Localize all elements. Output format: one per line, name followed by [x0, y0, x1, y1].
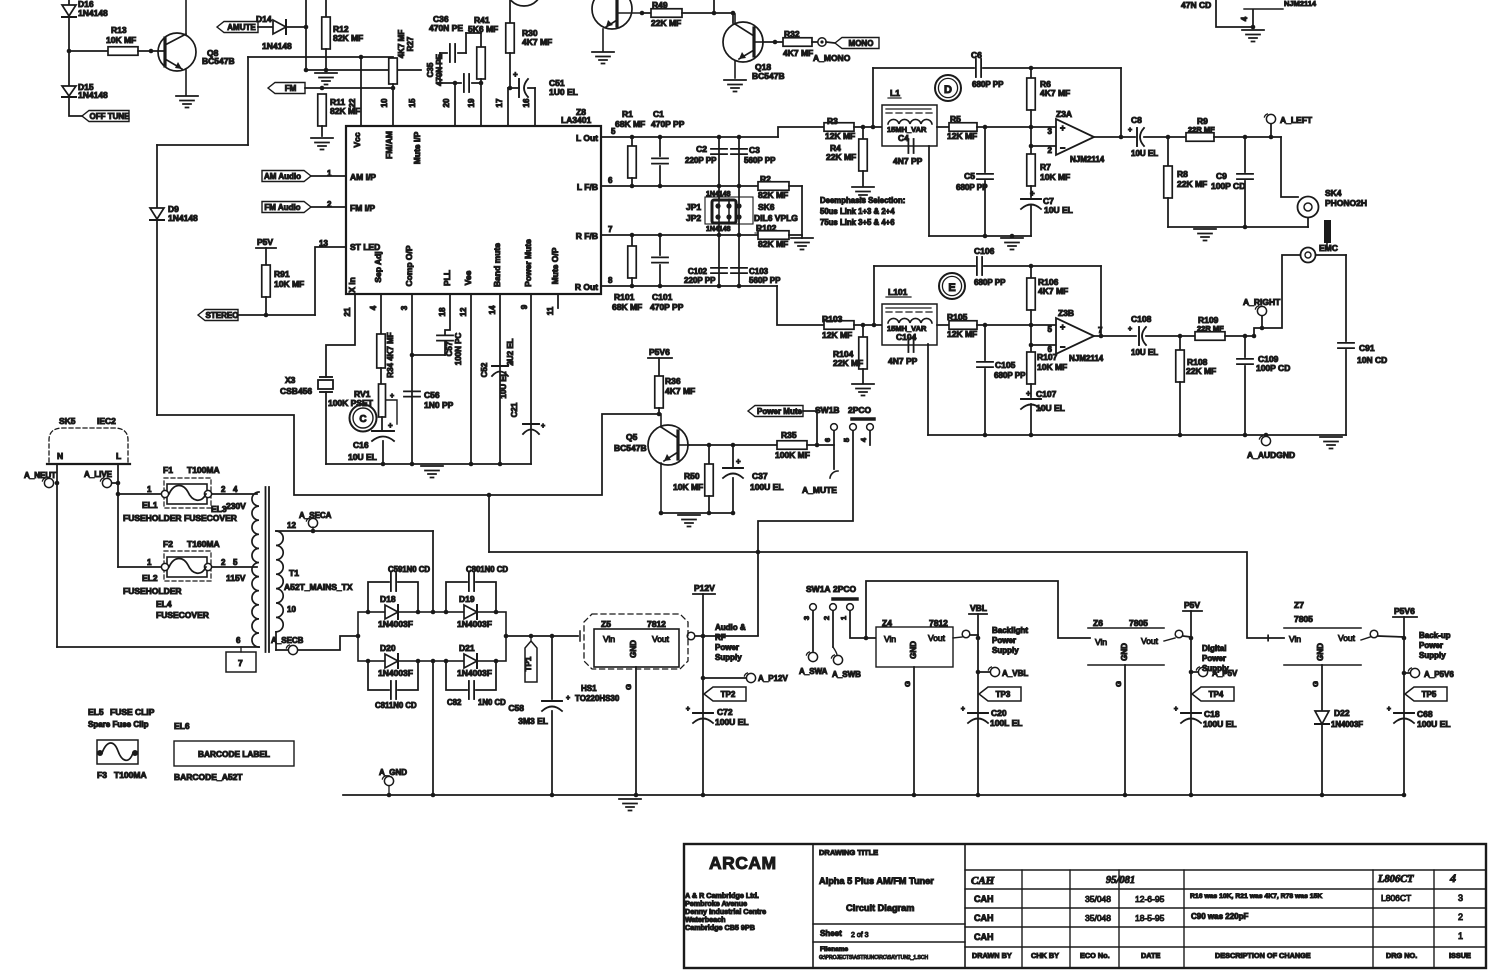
wire D15 to OFF TUNE: [69, 97, 82, 116]
svg-text:C5: C5: [964, 171, 975, 181]
capacitor C37: [723, 445, 784, 513]
wire L Out pin5: [601, 135, 778, 140]
label C35: [426, 53, 444, 86]
svg-text:C8: C8: [1131, 115, 1142, 125]
wire pin16: [534, 88, 536, 126]
diode D21: [457, 643, 492, 678]
svg-text:R49: R49: [652, 0, 668, 10]
svg-text:L101: L101: [888, 287, 908, 297]
svg-text:A_GND: A_GND: [379, 768, 407, 777]
ground below R12: [315, 73, 337, 85]
regulator Z6 7805: [1088, 618, 1164, 665]
svg-text:SK6: SK6: [758, 202, 775, 212]
svg-text:EL5: EL5: [88, 707, 104, 717]
svg-text:A_AUDGND: A_AUDGND: [1247, 450, 1295, 460]
svg-text:470P PP: 470P PP: [651, 119, 685, 129]
svg-text:BARCODE_A52T: BARCODE_A52T: [174, 772, 243, 782]
svg-text:4: 4: [369, 305, 378, 310]
svg-text:2U2 EL: 2U2 EL: [506, 338, 515, 365]
svg-text:3: 3: [1048, 127, 1053, 136]
wire Q5 emitter rail: [659, 511, 736, 516]
svg-text:JP1: JP1: [686, 202, 701, 212]
svg-text:+: +: [1128, 326, 1132, 333]
svg-text:22K MF: 22K MF: [1186, 366, 1216, 376]
wire P12V column: [702, 636, 704, 795]
svg-text:R36: R36: [665, 376, 681, 386]
svg-text:Vcc: Vcc: [352, 132, 362, 147]
svg-text:FUSECOVER: FUSECOVER: [184, 513, 237, 523]
wire pin10: [392, 88, 394, 126]
wire Z7 GND lower: [1321, 724, 1323, 795]
svg-text:Vout: Vout: [652, 634, 670, 644]
svg-text:Supply: Supply: [1419, 651, 1446, 660]
svg-text:2PCO: 2PCO: [848, 405, 872, 415]
wire AMUTE column: [304, 0, 309, 72]
wire to SK4: [1281, 137, 1298, 197]
wire bridge output: [506, 634, 578, 639]
svg-text:2: 2: [221, 558, 226, 567]
svg-text:TO220HS30: TO220HS30: [575, 694, 620, 703]
wire opamp minus input D: [1031, 145, 1056, 147]
wire pin3 column: [411, 294, 413, 464]
resistor R4: [826, 127, 867, 186]
wire deemphasis column C3: [738, 137, 740, 286]
svg-text:FUSEHOLDER: FUSEHOLDER: [123, 513, 182, 523]
pad A_SWB: [831, 655, 861, 679]
capacitor C108: [1128, 314, 1158, 357]
inductor L101 15MH_VAR: [882, 304, 937, 345]
op-amp U1 IC Z8 LA3401 body: [346, 126, 601, 294]
barcode label box: [174, 741, 294, 766]
wire P5V6 to R36: [658, 358, 660, 376]
resistor R9: [1186, 116, 1215, 141]
wire ground bus: [343, 793, 1406, 798]
wire RV1 to C16: [381, 417, 383, 431]
svg-text:A_SECA: A_SECA: [299, 511, 332, 520]
labels IC right pins: [575, 133, 598, 292]
wire P5V6 column: [1403, 638, 1405, 795]
svg-text:FM Audio: FM Audio: [264, 203, 300, 212]
wire R103 to L101: [854, 323, 882, 328]
wire VBL column: [977, 635, 979, 795]
wire R Out pin8: [601, 284, 777, 289]
svg-text:7805: 7805: [1129, 618, 1148, 628]
svg-text:10U EL: 10U EL: [1131, 149, 1158, 158]
svg-text:C16: C16: [353, 440, 369, 450]
svg-text:Vin: Vin: [603, 634, 615, 644]
ground below Q18: [724, 80, 746, 92]
wire deemphasis column C2: [718, 137, 720, 286]
capacitor C72: [686, 706, 749, 727]
svg-text:L F/B: L F/B: [577, 182, 598, 192]
wire mute drop to 552 rail: [487, 493, 492, 552]
svg-text:+: +: [388, 421, 393, 430]
svg-text:10U EL: 10U EL: [1036, 403, 1065, 413]
svg-text:Z5: Z5: [601, 619, 611, 629]
wire F2 to transformer: [212, 566, 257, 568]
wire Z5 output: [687, 632, 758, 640]
svg-text:15: 15: [408, 98, 417, 107]
flag AMUTE: [217, 22, 258, 33]
svg-text:FUSEHOLDER: FUSEHOLDER: [123, 586, 182, 596]
svg-text:F3: F3: [97, 770, 107, 780]
fuseholder F1 cover: [164, 478, 211, 508]
transistor Q8: [158, 0, 235, 95]
resistor R8: [1164, 137, 1207, 227]
note backlight power supply: [992, 626, 1028, 655]
svg-text:P5V: P5V: [1184, 600, 1200, 610]
svg-text:CAH: CAH: [974, 913, 994, 923]
capacitor C51: [508, 70, 535, 97]
svg-text:+: +: [1387, 706, 1391, 713]
ground below Q8: [176, 96, 198, 108]
svg-text:CHK BY: CHK BY: [1031, 951, 1059, 960]
svg-text:3: 3: [1458, 893, 1463, 903]
labels R101 C101: [612, 292, 684, 312]
svg-text:A_SECB: A_SECB: [271, 636, 304, 645]
ground R2 R102: [791, 238, 813, 250]
svg-text:DESCRIPTION OF CHANGE: DESCRIPTION OF CHANGE: [1215, 951, 1311, 960]
wire L to F1: [118, 485, 162, 494]
svg-text:100L EL: 100L EL: [990, 718, 1022, 728]
wire mute to pin15: [306, 69, 421, 71]
wire pin21 to X3: [326, 294, 355, 377]
potentiometer RV1 dial: [350, 405, 377, 432]
resistor R109: [1195, 315, 1225, 340]
svg-text:100U EL: 100U EL: [1417, 719, 1451, 729]
wire C107 to rail: [1030, 404, 1032, 435]
svg-text:Sep Adj: Sep Adj: [373, 251, 383, 282]
capacitor C5: [956, 127, 993, 236]
wire bridge centre to bus: [432, 661, 434, 795]
svg-text:C102: C102: [688, 267, 708, 276]
svg-text:R13: R13: [111, 25, 127, 35]
pad A_SECA: [299, 511, 332, 531]
svg-text:TP3: TP3: [996, 690, 1011, 699]
svg-text:OFF TUNE: OFF TUNE: [90, 112, 131, 121]
wire to A_VBL: [976, 670, 990, 675]
svg-text:1N4148: 1N4148: [168, 213, 198, 223]
svg-text:TP5: TP5: [1422, 690, 1437, 699]
svg-text:GND: GND: [629, 640, 638, 658]
svg-text:7812: 7812: [929, 618, 948, 628]
svg-text:560P PP: 560P PP: [749, 276, 781, 285]
ground channel E rail: [1320, 437, 1342, 449]
capacitor C16: [348, 421, 394, 462]
capacitor C80: [446, 565, 508, 612]
label C36: [429, 14, 463, 33]
svg-text:4: 4: [1449, 871, 1456, 885]
wire feedback right E: [1099, 266, 1104, 338]
svg-text:35/048: 35/048: [1085, 894, 1111, 904]
logo ARCAM: [709, 853, 777, 873]
resistor R3: [824, 116, 855, 141]
resistor R102: [758, 231, 789, 240]
svg-text:F2: F2: [163, 539, 173, 549]
svg-text:A_MUTE: A_MUTE: [802, 485, 837, 495]
svg-text:1: 1: [839, 616, 848, 620]
svg-text:47N CD: 47N CD: [1181, 0, 1211, 10]
wire F1 to transformer: [212, 485, 257, 494]
svg-text:2: 2: [1048, 146, 1053, 155]
svg-text:Vout: Vout: [1141, 636, 1159, 646]
power P5V: [1183, 600, 1202, 638]
svg-text:220P PP: 220P PP: [684, 276, 716, 285]
wire N to primary bottom: [57, 636, 259, 647]
wire R91 to stereo line: [264, 297, 269, 317]
wire pin20: [453, 81, 458, 126]
svg-text:230V: 230V: [226, 501, 246, 511]
testpoint TP1: [524, 636, 537, 682]
svg-text:1: 1: [1458, 931, 1463, 941]
flag MONO: [835, 38, 879, 49]
svg-text:5: 5: [1048, 325, 1053, 334]
svg-text:6: 6: [236, 636, 241, 645]
svg-text:G: G: [1311, 681, 1320, 687]
ground corner top right: [1242, 30, 1264, 42]
svg-text:4K7 MF: 4K7 MF: [397, 30, 406, 59]
svg-text:1N4148: 1N4148: [706, 226, 731, 233]
svg-text:Power Mute: Power Mute: [523, 239, 533, 287]
svg-text:6: 6: [608, 176, 613, 185]
potentiometer RV1: [328, 384, 397, 424]
svg-text:L806CT: L806CT: [1377, 874, 1414, 885]
svg-text:PLL: PLL: [442, 270, 452, 286]
svg-text:AMUTE: AMUTE: [227, 23, 256, 32]
svg-text:Supply: Supply: [1202, 664, 1229, 673]
wire opamp plus input D: [977, 125, 1056, 130]
wire pin4: [380, 294, 382, 334]
svg-text:1N0 PP: 1N0 PP: [424, 400, 454, 410]
svg-text:100U EL: 100U EL: [715, 717, 749, 727]
transistor Q18: [723, 14, 785, 81]
svg-text:EMC: EMC: [1319, 243, 1338, 253]
svg-text:R5: R5: [950, 114, 961, 124]
svg-text:NJM2114: NJM2114: [1069, 354, 1104, 363]
svg-text:R8: R8: [1177, 169, 1188, 179]
resistor R106: [1027, 266, 1068, 347]
wire AMUTE to D14: [256, 14, 292, 51]
wire secondary bottom: [276, 605, 358, 650]
capacitor C9: [1211, 137, 1253, 227]
svg-text:35/048: 35/048: [1085, 913, 1111, 923]
resistor R11: [318, 94, 360, 136]
svg-text:560P PP: 560P PP: [744, 156, 776, 165]
svg-text:PHONO2H: PHONO2H: [1325, 198, 1367, 208]
wire long rail to Z7: [489, 552, 1284, 638]
svg-text:12K MF: 12K MF: [822, 330, 852, 340]
svg-text:C82: C82: [447, 698, 462, 707]
svg-text:L1: L1: [890, 88, 900, 98]
capacitor C6: [971, 50, 1004, 89]
op-amp Z3A: [1048, 109, 1105, 164]
resistor R108: [1176, 336, 1216, 435]
svg-text:BARCODE LABEL: BARCODE LABEL: [198, 749, 270, 759]
svg-text:ISSUE: ISSUE: [1449, 951, 1471, 960]
wire C57 to pin3 column: [410, 341, 445, 357]
ground below R11: [311, 138, 333, 150]
svg-text:Filename: Filename: [820, 946, 849, 953]
svg-text:680P PP: 680P PP: [974, 278, 1006, 287]
svg-text:Q5: Q5: [626, 432, 638, 442]
svg-text:C9: C9: [1216, 171, 1227, 181]
svg-text:470P PP: 470P PP: [650, 302, 684, 312]
wire vertical x157: [156, 145, 158, 415]
svg-text:A_SWB: A_SWB: [832, 670, 861, 679]
svg-text:Spare Fuse Clip: Spare Fuse Clip: [88, 720, 149, 729]
svg-text:A_P12V: A_P12V: [758, 674, 788, 683]
svg-text:Vin: Vin: [884, 634, 896, 644]
svg-text:R32: R32: [784, 29, 800, 39]
svg-text:ARCAM: ARCAM: [709, 853, 777, 873]
resistor R34: [377, 332, 395, 377]
svg-text:3: 3: [802, 616, 811, 620]
capacitor C102: [684, 267, 727, 285]
connector SK6 pins: [715, 199, 741, 224]
svg-text:GND: GND: [1120, 643, 1129, 661]
wire pin12 Vee column: [470, 294, 472, 464]
svg-text:EL2: EL2: [142, 573, 158, 583]
svg-text:NJM2114: NJM2114: [1070, 155, 1105, 164]
wire secondary to bridge tap: [432, 531, 434, 612]
svg-text:R F/B: R F/B: [576, 231, 598, 241]
capacitor C21: [499, 371, 545, 434]
svg-text:A_LEFT: A_LEFT: [1280, 115, 1313, 125]
wire opamp plus input E: [977, 323, 1056, 328]
svg-text:C72: C72: [717, 707, 733, 717]
resistor R6: [1027, 68, 1070, 148]
svg-text:5: 5: [842, 438, 851, 442]
wire A_LEFT stub: [1270, 124, 1272, 137]
heatsink HS1 outline: [584, 614, 688, 669]
ground under IC rail: [421, 466, 443, 478]
svg-text:C68: C68: [1417, 709, 1433, 719]
resistor R32: [783, 29, 813, 58]
label EL6: [174, 721, 190, 731]
diode D20: [378, 643, 413, 678]
svg-text:HS1: HS1: [581, 684, 597, 693]
svg-text:68K MF: 68K MF: [612, 302, 642, 312]
svg-text:Vin: Vin: [1289, 634, 1301, 644]
svg-text:C18: C18: [1204, 709, 1220, 719]
resistor R12: [322, 0, 363, 72]
regulator Z7 7805: [1284, 600, 1361, 665]
svg-text:1: 1: [147, 485, 152, 494]
svg-text:2: 2: [1458, 912, 1463, 922]
ground power supply: [619, 799, 641, 811]
svg-text:RF: RF: [715, 633, 726, 642]
svg-text:+: +: [541, 423, 545, 430]
svg-text:C811N0 CD: C811N0 CD: [375, 701, 417, 710]
svg-text:C: C: [359, 414, 366, 425]
labels F2: [163, 539, 220, 549]
wire feedback top D: [873, 66, 1121, 71]
svg-text:22K MF: 22K MF: [1177, 179, 1207, 189]
wire to A_P5V6: [1402, 671, 1410, 676]
svg-text:Deemphasis Selection:: Deemphasis Selection:: [820, 196, 905, 205]
svg-text:EL1: EL1: [142, 500, 158, 510]
svg-text:D21: D21: [459, 643, 475, 653]
svg-text:FUSE CLIP: FUSE CLIP: [110, 707, 155, 717]
node E circle: [939, 273, 965, 299]
resistor R103: [822, 314, 854, 340]
labels HS1: [575, 684, 633, 703]
svg-text:1N4003F: 1N4003F: [457, 619, 492, 629]
svg-text:A_RIGHT: A_RIGHT: [1243, 297, 1281, 307]
capacitor C103: [731, 267, 781, 285]
testpoint TP2: [704, 687, 746, 701]
svg-text:D18: D18: [380, 594, 396, 604]
svg-text:C37: C37: [752, 471, 768, 481]
ground below Q5: [678, 515, 700, 527]
pin numbers IC right: [608, 127, 616, 285]
svg-text:Audio &: Audio &: [715, 623, 746, 632]
wire mute rail zigzag: [157, 414, 659, 495]
svg-text:3: 3: [400, 305, 409, 310]
svg-text:12K MF: 12K MF: [947, 329, 977, 339]
wire opamp minus input E: [1031, 344, 1056, 346]
labels fuseholder F1: [123, 500, 246, 523]
svg-text:C91: C91: [1359, 343, 1375, 353]
wire to Q18: [732, 13, 734, 23]
flag AM Audio pin1: [262, 171, 346, 182]
capacitor C20: [961, 706, 1023, 728]
svg-text:C35: C35: [426, 62, 435, 77]
svg-text:MONO: MONO: [849, 39, 874, 48]
label drawing title: [819, 848, 878, 857]
svg-text:4N7 PP: 4N7 PP: [893, 156, 923, 166]
svg-text:L Out: L Out: [576, 133, 598, 143]
svg-text:680P PP: 680P PP: [956, 183, 988, 192]
svg-text:C1: C1: [653, 109, 664, 119]
svg-text:11: 11: [546, 306, 555, 315]
capacitor C35: [440, 74, 483, 92]
svg-text:A_NEUT: A_NEUT: [24, 471, 56, 480]
svg-text:Z3B: Z3B: [1058, 308, 1074, 318]
pad A_RIGHT: [1243, 297, 1281, 316]
diode D19: [457, 594, 492, 629]
svg-text:−: −: [1060, 342, 1065, 352]
svg-text:E: E: [948, 282, 955, 294]
svg-text:STEREO: STEREO: [206, 311, 239, 320]
wire ST LED pin13: [315, 247, 346, 315]
svg-text:JP2: JP2: [686, 213, 701, 223]
switch SW1B contacts: [823, 424, 873, 442]
wire pin14 column: [499, 294, 501, 464]
svg-text:A_P5V6: A_P5V6: [1424, 670, 1454, 679]
svg-text:Vin: Vin: [1095, 637, 1107, 647]
labels F1: [163, 465, 220, 475]
svg-text:CSB456: CSB456: [280, 386, 312, 396]
svg-text:16: 16: [522, 98, 531, 107]
svg-text:GND: GND: [1316, 643, 1325, 661]
ground channel D: [1001, 238, 1023, 250]
svg-text:C108: C108: [1131, 314, 1152, 324]
svg-text:C591N0 CD: C591N0 CD: [388, 565, 430, 574]
wire Z6 GND: [1114, 665, 1125, 795]
wire pin19: [480, 83, 482, 126]
svg-text:+: +: [390, 393, 394, 400]
svg-text:10U EL: 10U EL: [499, 371, 508, 398]
svg-text:20: 20: [442, 98, 451, 107]
capacitor C101: [652, 235, 668, 286]
wire to A_P5V: [1189, 670, 1198, 675]
pad A_VBL: [988, 667, 1028, 678]
resistor R105: [947, 312, 977, 339]
title text: [819, 876, 934, 886]
svg-text:+: +: [1030, 189, 1035, 198]
wire ground rail under IC: [326, 462, 531, 467]
